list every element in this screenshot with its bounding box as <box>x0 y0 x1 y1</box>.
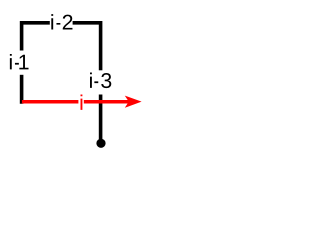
node dot at bottom of right wire <box>96 139 105 148</box>
label i-1 (with white halo over left wire) <box>2 51 29 75</box>
arrowhead of red axis <box>125 96 142 108</box>
wire: left vertical + top horizontal black segment <box>22 23 101 104</box>
label i-2 (with white halo over top wire) <box>50 14 73 29</box>
label i (red, with white halo over red shaft) <box>78 94 83 109</box>
label i-3 (with white halo over right wire) <box>90 70 111 94</box>
wire: right vertical black segment <box>99 21 103 143</box>
wire: red axis arrow shaft <box>22 100 131 104</box>
